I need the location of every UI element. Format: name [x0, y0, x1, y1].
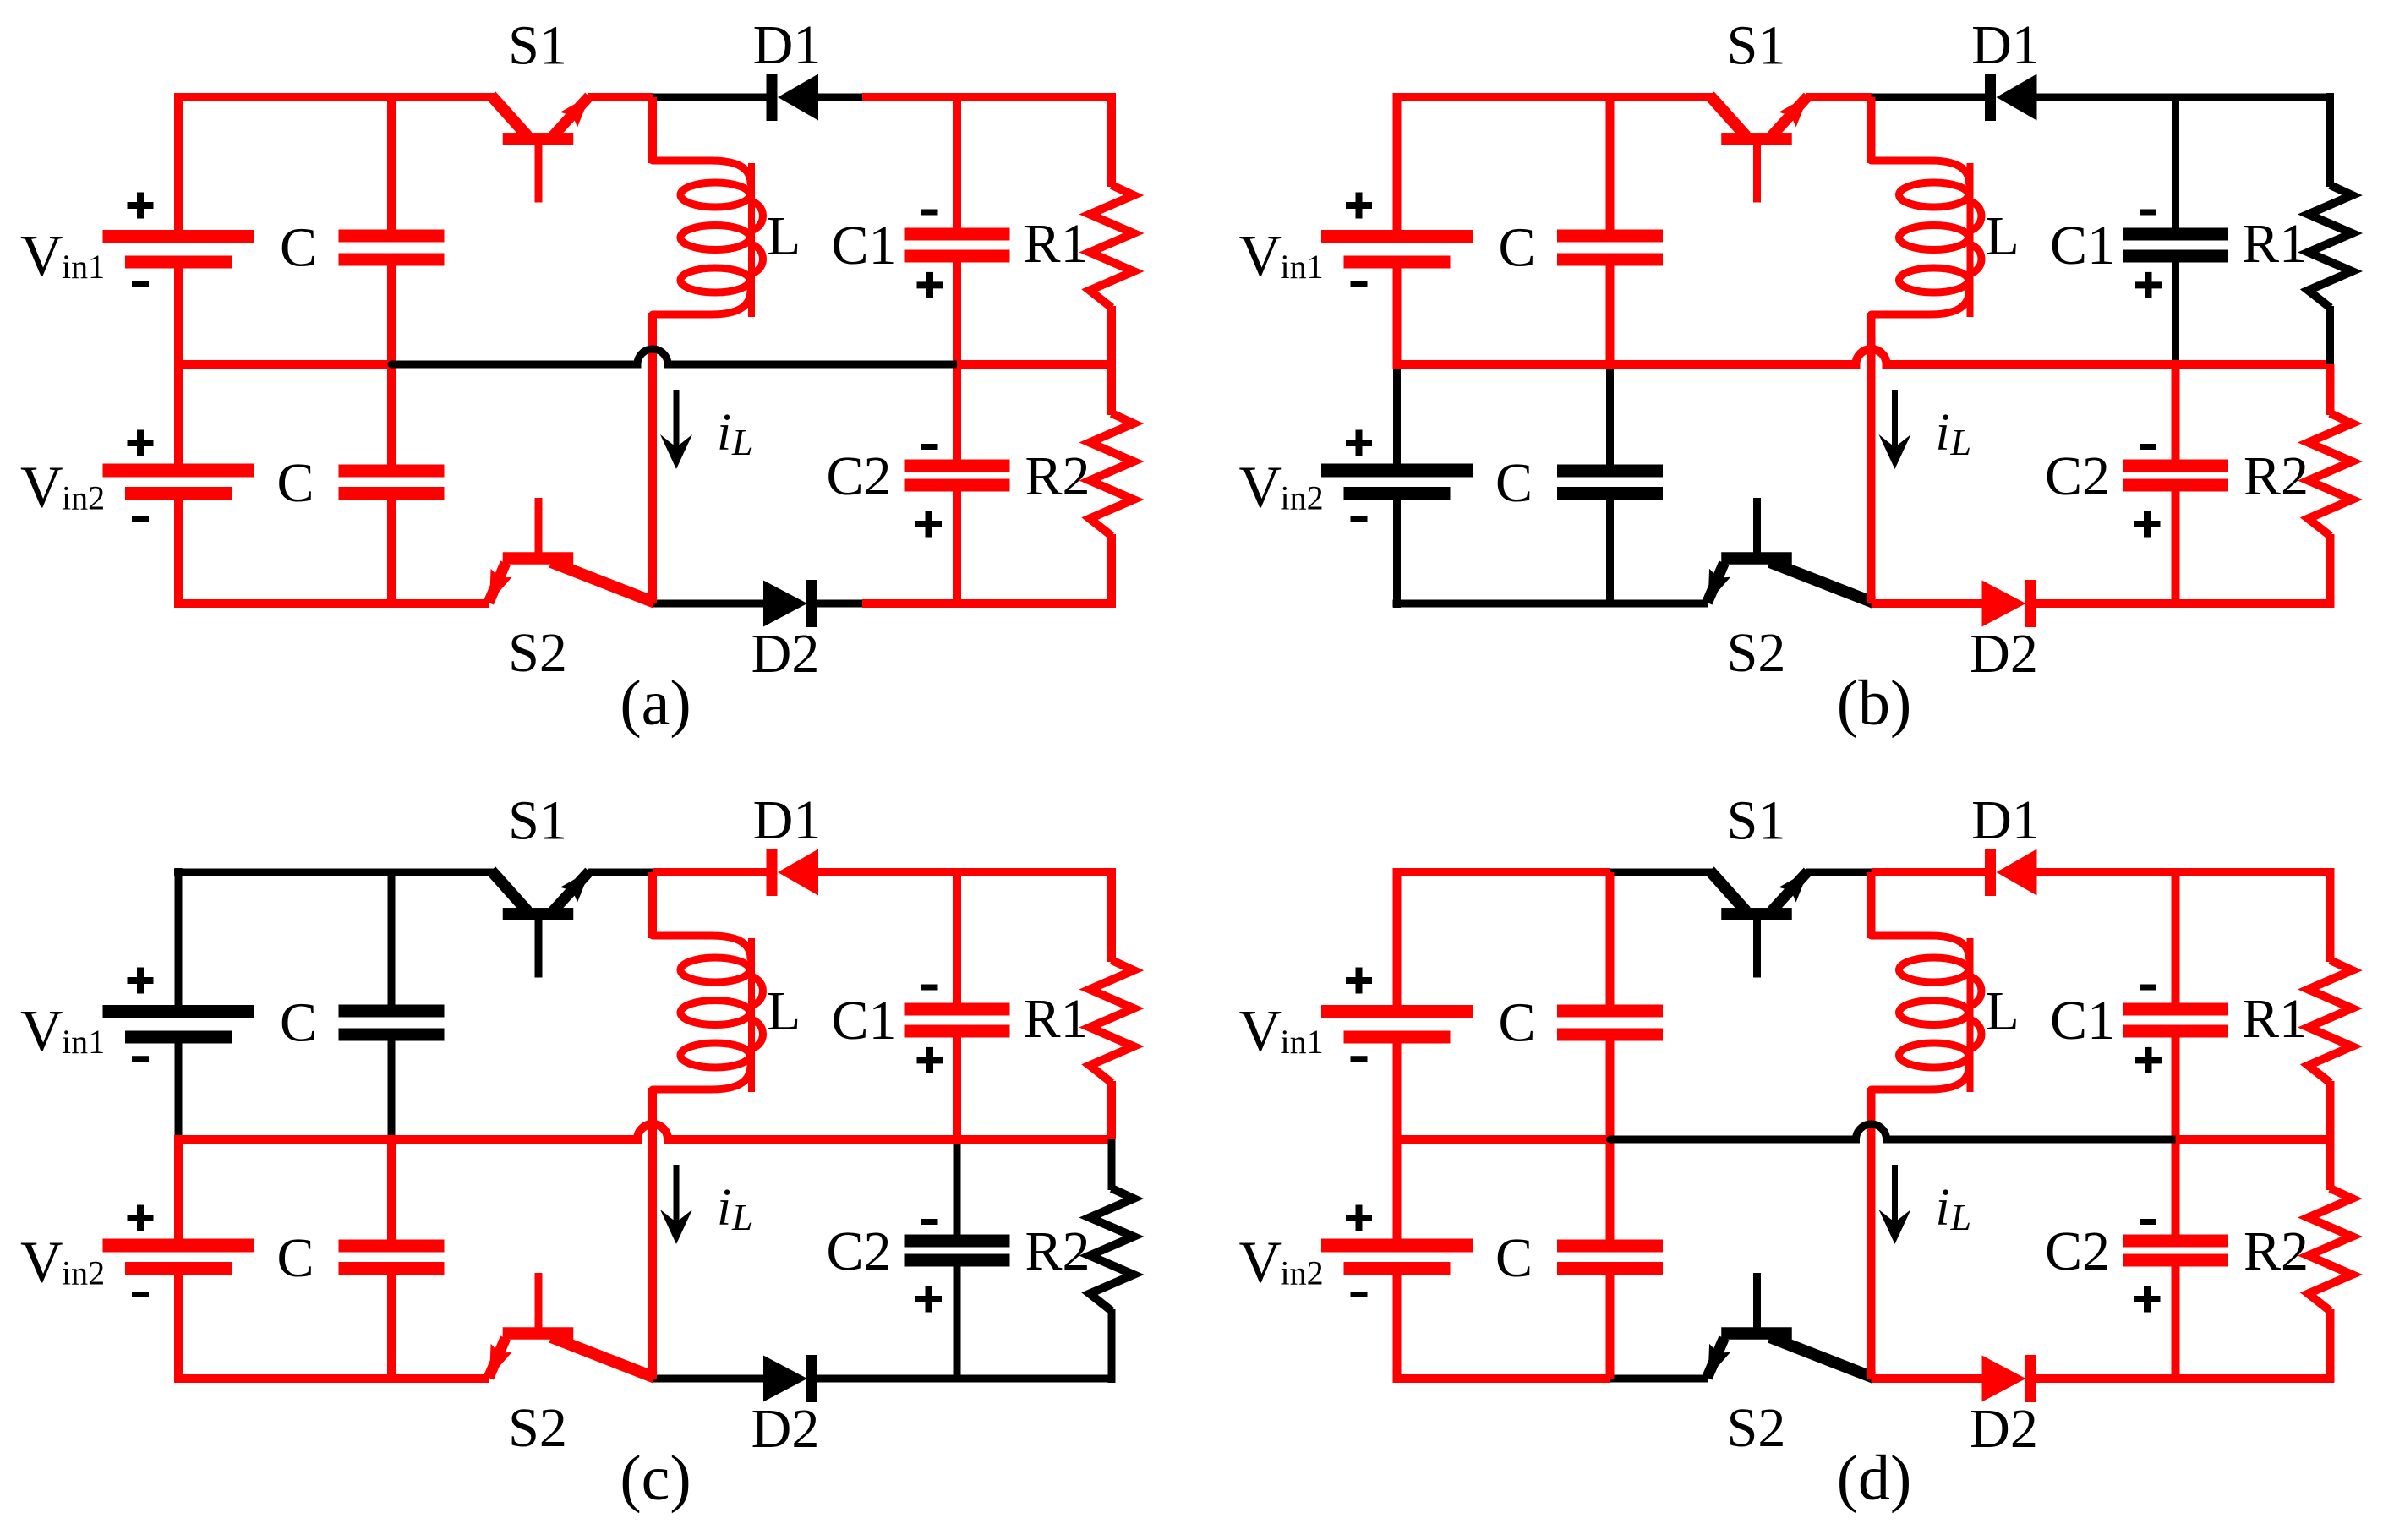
svg-text:(a): (a) [620, 668, 691, 739]
svg-text:i: i [717, 404, 731, 461]
svg-text:V: V [1239, 456, 1282, 521]
svg-text:in2: in2 [62, 479, 105, 517]
svg-text:C: C [280, 992, 317, 1054]
svg-text:C: C [1495, 1227, 1533, 1289]
svg-text:D2: D2 [1970, 1398, 2038, 1460]
svg-text:V: V [20, 224, 63, 289]
svg-text:S1: S1 [508, 790, 567, 852]
svg-text:S2: S2 [508, 1397, 567, 1459]
svg-text:R1: R1 [2242, 988, 2307, 1050]
svg-text:R2: R2 [2244, 445, 2309, 507]
svg-text:C1: C1 [831, 215, 896, 276]
svg-text:C: C [276, 452, 314, 514]
svg-text:(d): (d) [1837, 1443, 1912, 1514]
svg-text:C2: C2 [826, 1221, 891, 1282]
svg-text:in1: in1 [1281, 1023, 1324, 1061]
svg-text:V: V [1239, 999, 1282, 1064]
svg-text:C2: C2 [826, 445, 891, 507]
svg-text:in2: in2 [1281, 1254, 1324, 1292]
svg-text:(c): (c) [620, 1443, 691, 1514]
svg-text:S2: S2 [508, 622, 567, 684]
svg-text:L: L [1950, 1197, 1971, 1238]
svg-text:C: C [1498, 992, 1535, 1054]
svg-text:R2: R2 [1025, 1221, 1090, 1282]
svg-text:D1: D1 [753, 789, 822, 851]
svg-text:L: L [1985, 980, 2019, 1042]
svg-text:S1: S1 [1727, 790, 1786, 852]
svg-text:L: L [767, 980, 801, 1042]
svg-text:D2: D2 [752, 1398, 820, 1460]
svg-text:in2: in2 [1281, 479, 1324, 517]
svg-text:C1: C1 [2050, 215, 2115, 276]
svg-text:in2: in2 [62, 1254, 105, 1292]
svg-text:(b): (b) [1837, 668, 1912, 739]
svg-text:V: V [20, 999, 63, 1064]
svg-text:C1: C1 [831, 990, 896, 1051]
svg-text:L: L [767, 205, 801, 267]
svg-text:V: V [1239, 1231, 1282, 1296]
svg-text:L: L [731, 422, 752, 463]
svg-text:C2: C2 [2045, 445, 2110, 507]
svg-text:V: V [20, 456, 63, 521]
svg-text:in1: in1 [62, 248, 105, 286]
svg-text:C: C [1495, 452, 1533, 514]
svg-text:R2: R2 [2244, 1221, 2309, 1282]
svg-text:C: C [280, 217, 317, 279]
svg-text:i: i [1936, 1179, 1950, 1237]
svg-text:D2: D2 [752, 623, 820, 685]
svg-text:D2: D2 [1970, 623, 2038, 685]
svg-text:S1: S1 [1727, 15, 1786, 77]
svg-text:L: L [1950, 422, 1971, 463]
svg-text:R2: R2 [1025, 445, 1090, 507]
svg-text:V: V [20, 1231, 63, 1296]
svg-text:L: L [731, 1197, 752, 1238]
svg-text:R1: R1 [2242, 213, 2307, 275]
svg-text:R1: R1 [1023, 213, 1088, 275]
svg-text:in1: in1 [1281, 248, 1324, 286]
svg-text:C: C [276, 1227, 314, 1289]
svg-text:D1: D1 [1971, 14, 2040, 76]
svg-text:i: i [717, 1179, 731, 1237]
svg-text:R1: R1 [1023, 988, 1088, 1050]
svg-text:S2: S2 [1727, 1397, 1786, 1459]
svg-text:S2: S2 [1727, 622, 1786, 684]
svg-text:C2: C2 [2045, 1221, 2110, 1282]
svg-text:i: i [1936, 404, 1950, 461]
svg-text:D1: D1 [753, 14, 822, 76]
svg-text:V: V [1239, 224, 1282, 289]
svg-text:D1: D1 [1971, 789, 2040, 851]
svg-text:C: C [1498, 217, 1535, 279]
svg-text:in1: in1 [62, 1023, 105, 1061]
svg-text:S1: S1 [508, 15, 567, 77]
svg-text:C1: C1 [2050, 990, 2115, 1051]
svg-text:L: L [1985, 205, 2019, 267]
